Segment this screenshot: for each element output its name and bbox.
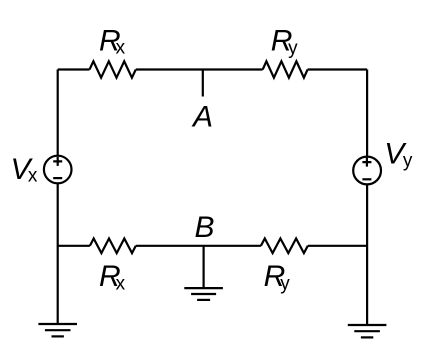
node A stub wire xyxy=(202,70,204,97)
resistor Rx (top) xyxy=(90,61,136,77)
svg-text:B: B xyxy=(195,211,215,244)
wire bottom-right segment xyxy=(308,245,367,247)
ground (bottom left) xyxy=(38,324,77,336)
svg-text:Ry: Ry xyxy=(264,260,291,295)
wire right vertical lower xyxy=(366,184,368,325)
svg-text:Rx: Rx xyxy=(99,260,126,295)
resistor Rx (bottom) xyxy=(90,239,136,254)
wire top-right segment xyxy=(308,68,368,70)
svg-text:Rx: Rx xyxy=(99,25,126,59)
wire left vertical upper xyxy=(57,70,59,156)
ground (bottom right) xyxy=(348,325,387,337)
voltage source Vx minus sign xyxy=(53,177,62,179)
wire bottom-middle segment xyxy=(136,245,261,247)
wire top-left segment xyxy=(58,68,90,70)
svg-text:A: A xyxy=(191,100,213,133)
wire right vertical upper xyxy=(366,70,368,157)
svg-text:Vx: Vx xyxy=(11,153,38,187)
svg-text:Vy: Vy xyxy=(384,138,413,172)
wire bottom-left segment xyxy=(58,245,90,247)
resistor Ry (bottom) xyxy=(261,239,308,254)
wire left vertical lower xyxy=(57,183,59,324)
wire top-middle segment xyxy=(136,68,263,70)
voltage source Vy minus sign xyxy=(362,178,371,180)
ground (node B) xyxy=(184,288,223,300)
voltage source Vx plus sign xyxy=(53,157,62,166)
node B stub wire xyxy=(203,246,205,288)
resistor Ry (top) xyxy=(263,61,308,77)
svg-text:Ry: Ry xyxy=(271,25,298,59)
voltage source Vy plus sign xyxy=(362,158,371,167)
voltage source Vx circle xyxy=(44,156,72,184)
voltage source Vy circle xyxy=(353,157,381,185)
